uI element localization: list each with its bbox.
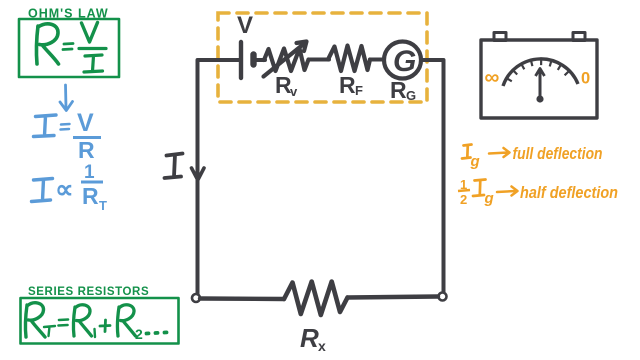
wire RF to G bbox=[370, 58, 384, 62]
meter scale labels bbox=[485, 66, 591, 89]
label RF bbox=[339, 72, 363, 98]
svg-text:half deflection: half deflection bbox=[520, 183, 618, 202]
resistor RX bbox=[284, 282, 348, 316]
svg-text:1: 1 bbox=[84, 162, 95, 183]
label RV bbox=[275, 72, 298, 99]
resistor RF bbox=[328, 46, 370, 72]
battery label V bbox=[237, 12, 253, 39]
wire G to right corner down bbox=[421, 60, 444, 295]
arrow blue down bbox=[60, 85, 73, 111]
svg-text:R: R bbox=[82, 183, 99, 209]
wire bottom right bbox=[348, 297, 439, 298]
svg-text:G: G bbox=[406, 88, 416, 103]
svg-text:SERIES RESISTORS: SERIES RESISTORS bbox=[28, 286, 149, 298]
dashed highlight box bbox=[218, 13, 427, 102]
label RG bbox=[390, 77, 416, 103]
svg-text:full deflection: full deflection bbox=[513, 144, 603, 163]
R 2 bbox=[117, 305, 135, 336]
svg-text:V: V bbox=[77, 109, 94, 137]
label RX bbox=[300, 323, 326, 354]
wire RV to RF bbox=[309, 58, 330, 62]
wire top-left corner bbox=[198, 60, 240, 296]
node right bbox=[439, 293, 447, 301]
formula I prop 1/RT bbox=[32, 162, 108, 213]
svg-text:x: x bbox=[318, 338, 326, 354]
formula box R = V/I bbox=[19, 19, 119, 77]
svg-text:v: v bbox=[290, 84, 298, 99]
svg-text:R: R bbox=[78, 137, 95, 163]
svg-text:2: 2 bbox=[135, 326, 143, 342]
svg-text:V: V bbox=[237, 12, 253, 39]
R 1 bbox=[73, 305, 91, 336]
annotation Ig full deflection bbox=[462, 144, 603, 170]
svg-text:∝: ∝ bbox=[55, 174, 74, 204]
svg-text:g: g bbox=[484, 190, 494, 207]
svg-text:T: T bbox=[99, 198, 107, 213]
R T bbox=[25, 303, 45, 337]
wire bottom left bbox=[200, 296, 284, 301]
variable resistor RV bbox=[264, 42, 309, 77]
svg-text:g: g bbox=[470, 153, 480, 170]
annotation half Ig half deflection bbox=[458, 177, 618, 207]
svg-text:∞: ∞ bbox=[485, 66, 500, 89]
panel title OHM'S LAW bbox=[28, 7, 109, 21]
galvanometer G bbox=[384, 42, 421, 79]
current arrow I bbox=[165, 154, 205, 181]
svg-text:R: R bbox=[300, 323, 319, 353]
svg-text:R: R bbox=[339, 72, 356, 98]
formula I = V/R bbox=[34, 109, 102, 163]
svg-text:2: 2 bbox=[460, 192, 467, 207]
svg-text:F: F bbox=[355, 83, 363, 98]
svg-text:0: 0 bbox=[581, 70, 590, 88]
node left bbox=[192, 294, 200, 302]
battery V bbox=[241, 42, 254, 78]
meter icon bbox=[481, 33, 597, 119]
svg-text:G: G bbox=[393, 45, 416, 78]
formula box RT = R1 + R2 ... bbox=[21, 298, 179, 344]
panel title SERIES RESISTORS bbox=[28, 286, 149, 298]
wire battery to RV bbox=[257, 58, 266, 62]
svg-text:R: R bbox=[390, 77, 407, 103]
